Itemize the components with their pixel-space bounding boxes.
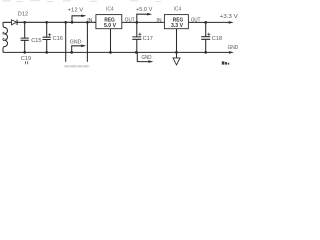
svg-text:C17: C17 <box>143 36 153 42</box>
wire +12V tap <box>72 16 82 22</box>
svg-text:3.3 V: 3.3 V <box>171 23 183 29</box>
wire top rail from diode to IC4 <box>17 21 96 23</box>
junction node C15 top <box>23 21 26 24</box>
cropped text remnant bottom right <box>222 61 229 64</box>
svg-text:OUT: OUT <box>125 17 136 23</box>
svg-text:C15: C15 <box>31 38 41 44</box>
junction node passthrough A top <box>64 21 67 24</box>
svg-text:IC4: IC4 <box>174 7 182 13</box>
svg-text:GND: GND <box>228 45 239 51</box>
junction node C17 bottom <box>135 51 138 54</box>
wire ground rail <box>3 51 229 53</box>
arrowhead GND left <box>81 45 86 48</box>
svg-text:+5.0 V: +5.0 V <box>136 7 153 13</box>
wire top rail left segment <box>3 22 11 24</box>
junction node regulator 2 ground <box>175 51 178 54</box>
ground symbol <box>173 58 180 65</box>
svg-text:D12: D12 <box>18 12 28 18</box>
wire OUT of second regulator to +3.3V <box>188 21 229 23</box>
junction node passthrough B top <box>86 21 89 24</box>
cropped component C19 leads <box>26 61 28 64</box>
wire vertical passthrough B <box>86 22 88 62</box>
wire GND tap middle <box>137 52 148 61</box>
cropped text remnant bottom middle <box>64 65 90 67</box>
regulator IC4b ground lead with ground symbol stub <box>176 29 178 58</box>
wire GND tap left <box>72 46 82 53</box>
junction node C15 bottom <box>23 51 26 54</box>
wire OUT of first regulator <box>122 21 165 23</box>
junction node regulator 1 ground <box>109 51 112 54</box>
capacitor C17 <box>132 22 141 52</box>
regulator IC4 ground lead <box>110 29 112 53</box>
svg-text:C16: C16 <box>53 36 63 42</box>
svg-text:GND: GND <box>142 55 152 61</box>
regulator U1 box <box>96 15 122 29</box>
polarity plus C16 <box>48 33 51 36</box>
capacitor C15 <box>21 22 29 52</box>
arrowhead GND middle <box>148 60 153 63</box>
regulator U2 box <box>164 15 188 29</box>
polarity plus C18 <box>207 33 210 36</box>
arrowhead +3.3V <box>229 21 234 24</box>
diode D12 <box>12 20 17 25</box>
junction node C18 top <box>204 21 207 24</box>
junction node C16 bottom <box>45 51 48 54</box>
svg-text:+12 V: +12 V <box>68 8 84 14</box>
junction node C16 top <box>45 21 48 24</box>
wire vertical passthrough A <box>65 22 67 62</box>
junction node +5V tap <box>135 21 138 24</box>
svg-text:+3.3 V: +3.3 V <box>220 14 238 20</box>
svg-text:IN: IN <box>87 18 92 24</box>
polarity plus C17 <box>138 33 141 36</box>
capacitor C18 <box>201 22 210 52</box>
arrowhead GND rail right <box>229 51 234 54</box>
arrowhead +12V <box>81 15 86 18</box>
svg-text:C19: C19 <box>21 56 31 62</box>
junction node C18 bottom <box>204 51 207 54</box>
svg-text:C18: C18 <box>212 36 222 42</box>
svg-text:GND: GND <box>70 40 82 46</box>
svg-text:5.0 V: 5.0 V <box>104 23 116 29</box>
svg-text:OUT: OUT <box>191 17 201 23</box>
svg-text:IC4: IC4 <box>106 7 114 13</box>
svg-text:IN: IN <box>156 18 161 24</box>
arrowhead +5.0V <box>147 13 152 16</box>
junction node +12V tap <box>71 21 74 24</box>
inductor L (coil) <box>3 25 8 53</box>
capacitor C16 <box>43 22 51 52</box>
wire +5.0V tap <box>137 14 148 22</box>
junction node GND tap left <box>70 51 73 54</box>
